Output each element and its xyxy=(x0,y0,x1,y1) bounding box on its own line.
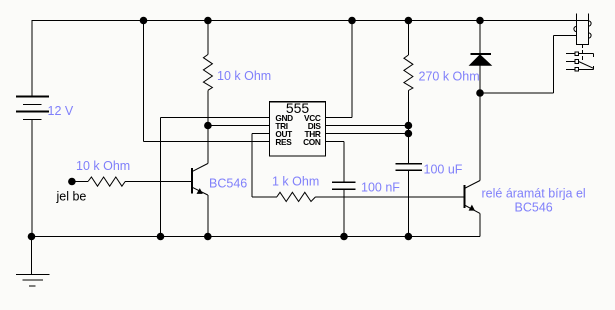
wire 100nF to ground rail xyxy=(343,189,345,236)
relay contact NC bottom xyxy=(566,66,594,71)
transistor Q2 BC546 (relay driver) xyxy=(464,93,480,237)
wire 100uF to ground rail xyxy=(407,170,409,236)
node junction D1/relay/Q2 collector xyxy=(476,89,484,97)
node ground rail junctions xyxy=(28,233,36,241)
svg-text:CON: CON xyxy=(303,137,321,147)
node junction rail/D1 xyxy=(476,17,484,25)
resistor R3 1 k Ohm xyxy=(277,192,316,201)
svg-text:1 k Ohm: 1 k Ohm xyxy=(272,175,319,189)
svg-text:relé áramát bírja el: relé áramát bírja el xyxy=(482,187,586,201)
IC U1 555 timer xyxy=(270,102,326,156)
wire VCC to rail xyxy=(326,21,353,118)
capacitor C1 100 nF xyxy=(332,182,356,189)
wire TRI pin xyxy=(208,125,270,127)
wire CON pin to 100nF xyxy=(326,142,345,183)
svg-text:270 k Ohm: 270 k Ohm xyxy=(419,70,480,84)
svg-text:12 V: 12 V xyxy=(48,104,74,118)
wire GND pin to ground rail xyxy=(161,118,270,237)
resistor R1 10 k Ohm (pull-up) xyxy=(203,21,212,164)
wire top +12V rail xyxy=(32,20,589,22)
wire reset: rail to RES pin xyxy=(144,21,270,142)
svg-text:100 nF: 100 nF xyxy=(361,181,400,195)
node junction rail/VCC xyxy=(348,17,356,25)
wire relay coil return xyxy=(480,36,577,94)
node junction rail/R2 xyxy=(405,17,413,25)
svg-text:BC546: BC546 xyxy=(515,201,553,215)
svg-text:10 k Ohm: 10 k Ohm xyxy=(217,69,271,83)
pin labels VCC DIS THR CON xyxy=(303,113,321,147)
node junction THR xyxy=(405,130,413,138)
resistor R4 10 k Ohm (input) xyxy=(75,177,191,186)
battery B1 12 V xyxy=(16,21,49,237)
relay contact NO top xyxy=(566,52,594,57)
svg-text:100 uF: 100 uF xyxy=(424,163,463,177)
svg-text:BC546: BC546 xyxy=(209,177,247,191)
wire 1k to Q2 base xyxy=(316,196,465,198)
node junction rail/RES xyxy=(140,17,148,25)
node junction rail/R1 xyxy=(204,17,212,25)
resistor R2 270 k Ohm xyxy=(404,21,413,164)
input terminal jel be xyxy=(68,178,76,186)
diode D1 flyback xyxy=(470,21,491,94)
node junction R1/TRI/Q1 collector xyxy=(204,122,212,130)
wire DIS pin xyxy=(326,125,409,127)
wire OUT pin down to 1k resistor xyxy=(252,134,277,198)
svg-text:RES: RES xyxy=(275,137,292,147)
capacitor C2 100 uF xyxy=(396,164,422,171)
relay K1 coil xyxy=(574,14,591,61)
ground xyxy=(16,237,50,287)
wire bottom ground rail xyxy=(32,236,481,238)
svg-text:10 k Ohm: 10 k Ohm xyxy=(76,159,130,173)
svg-text:jel be: jel be xyxy=(56,190,87,204)
pin labels GND TRI OUT RES xyxy=(275,113,293,147)
relay contact common middle xyxy=(566,60,594,69)
wire THR pin xyxy=(326,133,409,135)
transistor Q1 BC546 xyxy=(192,164,208,237)
node junction DIS xyxy=(405,122,413,130)
